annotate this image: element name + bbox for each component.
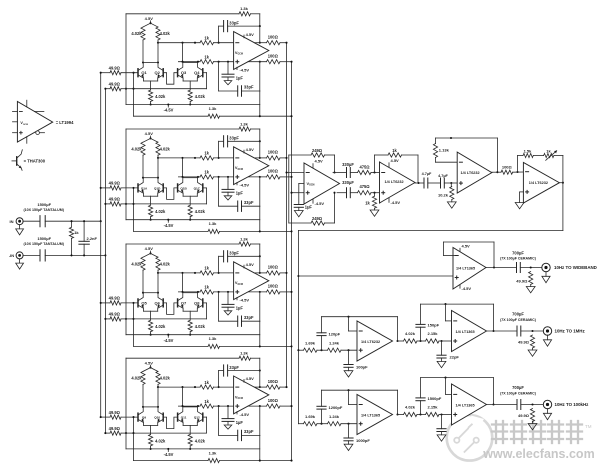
svg-text:4.5V: 4.5V	[246, 262, 255, 267]
svg-text:4.02k: 4.02k	[155, 94, 166, 99]
svg-text:(7X 100µF CERAMIC): (7X 100µF CERAMIC)	[500, 392, 537, 396]
svg-text:1k: 1k	[392, 148, 397, 153]
svg-text:33pF: 33pF	[244, 429, 254, 434]
svg-text:49.9Ω: 49.9Ω	[109, 181, 121, 186]
svg-text:1k: 1k	[204, 399, 209, 404]
svg-text:-4.5V: -4.5V	[164, 108, 174, 113]
svg-text:4.5V: 4.5V	[246, 147, 255, 152]
svg-text:-4.5V: -4.5V	[164, 223, 174, 228]
svg-text:1k: 1k	[546, 148, 551, 153]
svg-text:4.7µF: 4.7µF	[422, 172, 432, 176]
svg-text:(10X 150µF TANTALUM): (10X 150µF TANTALUM)	[23, 242, 64, 246]
svg-text:4.7µF: 4.7µF	[438, 174, 448, 178]
svg-text:49.9Ω: 49.9Ω	[109, 296, 121, 301]
svg-text:1/4 LT1365: 1/4 LT1365	[361, 413, 380, 417]
svg-text:Q6: Q6	[155, 300, 161, 305]
svg-text:475Ω: 475Ω	[359, 164, 370, 169]
svg-text:1000pF: 1000pF	[356, 438, 370, 443]
svg-text:1k: 1k	[365, 201, 370, 206]
svg-text:100Ω: 100Ω	[268, 265, 279, 270]
svg-text:1µF: 1µF	[236, 75, 244, 80]
svg-text:249Ω: 249Ω	[312, 148, 323, 153]
svg-text:100Ω: 100Ω	[268, 54, 279, 59]
svg-text:2.15k: 2.15k	[427, 331, 438, 336]
svg-text:1.3k: 1.3k	[240, 236, 249, 241]
svg-text:249Ω: 249Ω	[312, 216, 323, 221]
svg-text:10Hz TO 1MHz: 10Hz TO 1MHz	[555, 329, 586, 334]
svg-text:49.9Ω: 49.9Ω	[109, 410, 121, 415]
svg-text:49.9Ω: 49.9Ω	[516, 278, 528, 283]
svg-text:Q4: Q4	[194, 70, 200, 75]
svg-text:-4.5V: -4.5V	[164, 452, 174, 457]
svg-text:(10X 150µF TANTALUM): (10X 150µF TANTALUM)	[23, 208, 64, 212]
svg-text:1/4 LT1365: 1/4 LT1365	[456, 330, 475, 334]
svg-text:4.02k: 4.02k	[131, 376, 142, 381]
svg-text:Q10: Q10	[154, 416, 160, 420]
svg-text:100Ω: 100Ω	[268, 169, 279, 174]
svg-text:1µF: 1µF	[305, 205, 313, 210]
svg-text:4.5V: 4.5V	[145, 131, 154, 136]
svg-text:49.9Ω: 49.9Ω	[109, 312, 121, 317]
svg-text:Q7: Q7	[181, 300, 187, 305]
svg-text:33pF: 33pF	[244, 85, 254, 90]
svg-text:49.9Ω: 49.9Ω	[518, 413, 530, 418]
svg-text:4.02k: 4.02k	[131, 31, 142, 36]
svg-text:150pF: 150pF	[428, 322, 440, 327]
svg-text:4.02k: 4.02k	[405, 405, 416, 410]
svg-text:1.3k: 1.3k	[240, 351, 249, 356]
svg-text:1.24k: 1.24k	[329, 414, 340, 419]
svg-text:4.02k: 4.02k	[195, 209, 206, 214]
svg-text:4.5V: 4.5V	[246, 32, 255, 37]
svg-text:TM: TM	[585, 424, 592, 429]
svg-text:1.3k: 1.3k	[209, 221, 218, 226]
svg-text:Q5: Q5	[141, 300, 147, 305]
svg-text:1µF: 1µF	[236, 306, 244, 311]
svg-text:100Ω: 100Ω	[268, 150, 279, 155]
svg-text:-4.5V: -4.5V	[240, 183, 250, 188]
svg-text:4.5V: 4.5V	[145, 16, 154, 21]
svg-text:49.9Ω: 49.9Ω	[109, 82, 121, 87]
svg-text:(7X 100µF CERAMIC): (7X 100µF CERAMIC)	[500, 318, 537, 322]
svg-text:-4.5V: -4.5V	[315, 201, 325, 206]
svg-text:4.02k: 4.02k	[195, 94, 206, 99]
svg-text:1.3k: 1.3k	[209, 336, 218, 341]
svg-text:Q3: Q3	[181, 70, 187, 75]
svg-text:1/4 LT6232: 1/4 LT6232	[461, 171, 480, 175]
svg-text:Q2: Q2	[155, 70, 161, 75]
svg-text:4.02k: 4.02k	[405, 331, 416, 336]
svg-text:33pF: 33pF	[244, 315, 254, 320]
svg-text:1.3k: 1.3k	[209, 450, 218, 455]
svg-text:4.5V: 4.5V	[145, 246, 154, 251]
svg-text:(7X 100µF CERAMIC): (7X 100µF CERAMIC)	[500, 257, 537, 261]
svg-text:-4.5V: -4.5V	[240, 68, 250, 73]
svg-text:1500µF: 1500µF	[37, 236, 51, 241]
svg-text:49.9Ω: 49.9Ω	[109, 66, 121, 71]
svg-text:700µF: 700µF	[512, 385, 524, 390]
svg-text:1/4 LT6232: 1/4 LT6232	[361, 340, 380, 344]
svg-text:4.02k: 4.02k	[160, 146, 171, 151]
svg-text:-4.5V: -4.5V	[240, 298, 250, 303]
svg-text:10Hz TO WIDEBAND: 10Hz TO WIDEBAND	[554, 265, 597, 270]
svg-text:= LT1994: = LT1994	[56, 120, 74, 125]
svg-text:100Ω: 100Ω	[268, 398, 279, 403]
svg-text:1.3k: 1.3k	[240, 6, 249, 11]
svg-text:Q11: Q11	[181, 416, 187, 420]
svg-text:49.9Ω: 49.9Ω	[109, 426, 121, 431]
svg-text:1.13k: 1.13k	[439, 148, 450, 153]
svg-text:1k: 1k	[204, 266, 209, 271]
svg-text:100Ω: 100Ω	[502, 165, 513, 170]
svg-text:4.02k: 4.02k	[160, 261, 171, 266]
svg-text:1k: 1k	[204, 151, 209, 156]
svg-text:1k: 1k	[204, 380, 209, 385]
svg-text:4.02k: 4.02k	[155, 209, 166, 214]
svg-text:49.9Ω: 49.9Ω	[109, 197, 121, 202]
svg-text:100Ω: 100Ω	[268, 284, 279, 289]
svg-text:4.5V: 4.5V	[315, 159, 324, 164]
svg-text:1/4 LT6232: 1/4 LT6232	[529, 181, 548, 185]
svg-text:-4.5V: -4.5V	[391, 200, 401, 205]
svg-text:1k: 1k	[204, 55, 209, 60]
svg-text:Q1B: Q1B	[180, 186, 187, 190]
svg-text:1500pF: 1500pF	[428, 396, 442, 401]
svg-text:2.2nF: 2.2nF	[87, 236, 98, 241]
svg-text:100pF: 100pF	[356, 364, 368, 369]
svg-text:10.2k: 10.2k	[438, 193, 449, 198]
svg-text:Q12: Q12	[194, 416, 200, 420]
svg-text:1.24k: 1.24k	[329, 341, 340, 346]
svg-text:= THAT300: = THAT300	[24, 159, 46, 164]
svg-text:120pF: 120pF	[329, 331, 341, 336]
svg-text:33pF: 33pF	[229, 136, 239, 141]
svg-text:Q8: Q8	[194, 300, 200, 305]
svg-text:Q1: Q1	[141, 70, 147, 75]
svg-text:1200pF: 1200pF	[329, 405, 343, 410]
svg-text:33pF: 33pF	[229, 20, 239, 25]
svg-text:4.02k: 4.02k	[160, 376, 171, 381]
svg-text:Q1D: Q1D	[154, 186, 161, 190]
svg-text:1/4 LT1365: 1/4 LT1365	[456, 404, 475, 408]
svg-text:www.elecfans.com: www.elecfans.com	[482, 447, 594, 461]
svg-text:49.9Ω: 49.9Ω	[518, 339, 530, 344]
svg-text:4.5V: 4.5V	[145, 360, 154, 365]
svg-text:-4.5V: -4.5V	[164, 338, 174, 343]
svg-text:1k: 1k	[204, 285, 209, 290]
svg-text:4.02k: 4.02k	[131, 146, 142, 151]
svg-text:4.5V: 4.5V	[391, 158, 400, 163]
svg-text:100Ω: 100Ω	[268, 35, 279, 40]
svg-text:4.02k: 4.02k	[155, 438, 166, 443]
svg-text:4.02k: 4.02k	[195, 438, 206, 443]
svg-text:-4.5V: -4.5V	[462, 286, 472, 291]
svg-text:475Ω: 475Ω	[359, 184, 370, 189]
svg-text:4.02k: 4.02k	[160, 31, 171, 36]
svg-text:1k: 1k	[204, 36, 209, 41]
svg-text:4.5V: 4.5V	[246, 376, 255, 381]
svg-text:100Ω: 100Ω	[268, 379, 279, 384]
svg-text:1.3k: 1.3k	[209, 106, 218, 111]
svg-text:330µF: 330µF	[342, 180, 354, 185]
svg-text:1k: 1k	[74, 230, 79, 235]
svg-text:1500µF: 1500µF	[37, 202, 51, 207]
svg-text:1µF: 1µF	[236, 420, 244, 425]
svg-text:1k: 1k	[204, 170, 209, 175]
svg-text:Q1C: Q1C	[194, 186, 201, 190]
svg-text:IN: IN	[10, 219, 14, 224]
svg-text:4.5V: 4.5V	[462, 244, 471, 249]
svg-text:33pF: 33pF	[229, 251, 239, 256]
svg-text:10Hz TO 100kHz: 10Hz TO 100kHz	[555, 402, 590, 407]
svg-text:1.5k: 1.5k	[524, 148, 533, 153]
svg-text:33pF: 33pF	[229, 365, 239, 370]
svg-text:Q9: Q9	[142, 416, 146, 420]
svg-text:4.02k: 4.02k	[195, 324, 206, 329]
svg-text:1/4 LT6232: 1/4 LT6232	[385, 180, 404, 184]
svg-text:-4.5V: -4.5V	[240, 412, 250, 417]
svg-text:4.02k: 4.02k	[131, 261, 142, 266]
svg-text:4.02k: 4.02k	[155, 324, 166, 329]
svg-text:33pF: 33pF	[244, 200, 254, 205]
svg-text:1.3k: 1.3k	[240, 121, 249, 126]
svg-text:-IN: -IN	[9, 253, 14, 258]
svg-text:1/4 LT1365: 1/4 LT1365	[456, 267, 475, 271]
svg-text:1.69k: 1.69k	[305, 341, 316, 346]
svg-text:700µF: 700µF	[512, 312, 524, 317]
svg-text:1.69k: 1.69k	[305, 414, 316, 419]
svg-text:Q1A: Q1A	[141, 186, 148, 190]
svg-text:330µF: 330µF	[342, 162, 354, 167]
svg-text:2.15k: 2.15k	[427, 405, 438, 410]
svg-text:1µF: 1µF	[236, 191, 244, 196]
svg-text:700µF: 700µF	[512, 250, 524, 255]
svg-text:22pF: 22pF	[450, 355, 460, 360]
